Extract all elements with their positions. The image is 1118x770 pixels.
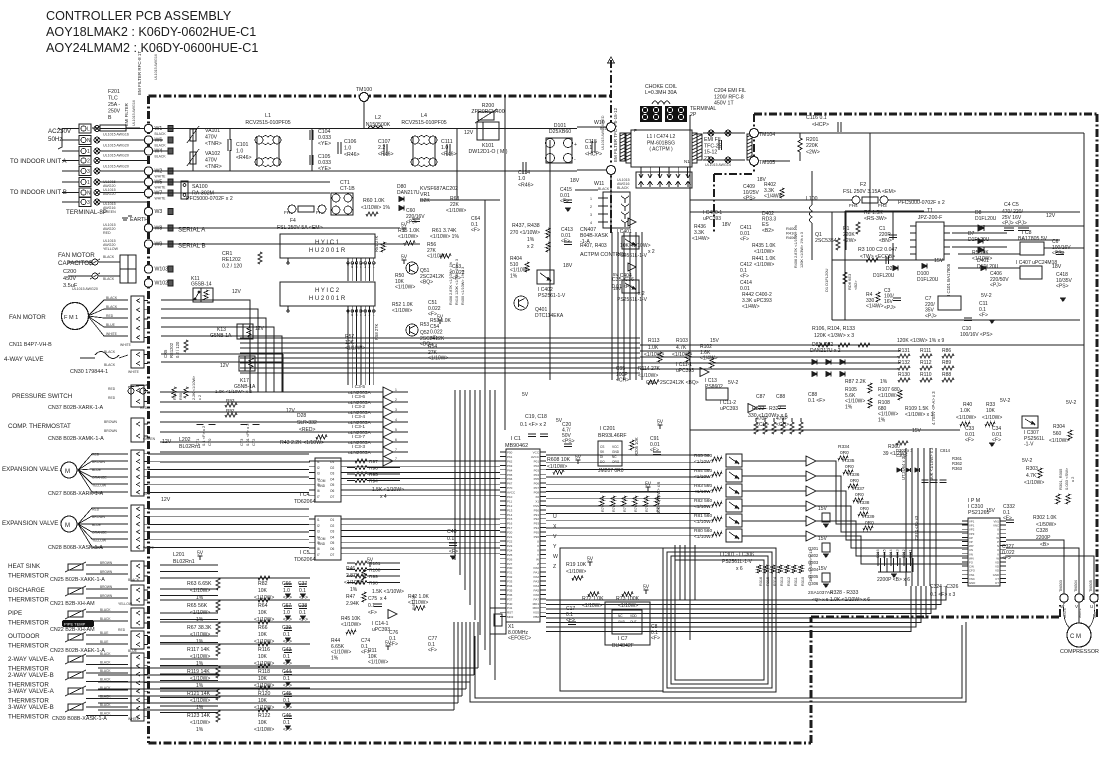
svg-text:BROWN: BROWN <box>100 561 113 565</box>
svg-text:WHITE: WHITE <box>120 343 132 347</box>
svg-text:R19 10K: R19 10K <box>566 562 587 568</box>
svg-text:<1/10W>: <1/10W> <box>694 504 714 510</box>
svg-text:<1/10W>: <1/10W> <box>956 415 976 421</box>
svg-text:5V-2: 5V-2 <box>981 293 992 299</box>
svg-text:R97: R97 <box>369 459 378 465</box>
svg-text:-1-V: -1-V <box>1024 442 1034 448</box>
svg-text:D2: D2 <box>886 266 893 272</box>
svg-text:P41: P41 <box>507 606 513 610</box>
svg-text:10K: 10K <box>258 676 268 682</box>
svg-text:Q301: Q301 <box>808 546 819 551</box>
svg-text:<PS>: <PS> <box>1052 251 1065 257</box>
svg-text:BLACK: BLACK <box>598 187 610 191</box>
svg-text:CT1: CT1 <box>340 180 350 186</box>
svg-text:P10: P10 <box>507 495 513 499</box>
svg-text:W102: W102 <box>155 281 169 287</box>
svg-text:4.7K: 4.7K <box>676 345 687 351</box>
svg-text:I6: I6 <box>317 489 320 493</box>
svg-text:P95: P95 <box>534 531 540 535</box>
svg-text:P67: P67 <box>507 482 513 486</box>
svg-text:FAN MOTOR: FAN MOTOR <box>58 252 95 259</box>
svg-text:W: W <box>553 554 558 560</box>
svg-text:<1/4W>: <1/4W> <box>742 304 760 310</box>
svg-text:I7: I7 <box>317 553 320 557</box>
svg-text:GND: GND <box>969 581 975 585</box>
svg-text:WHITE: WHITE <box>106 332 118 336</box>
svg-text:<YE>: <YE> <box>318 141 331 147</box>
svg-text:<1/10W>: <1/10W> <box>368 660 388 666</box>
svg-text:VCC: VCC <box>612 445 619 449</box>
svg-text:BLACK: BLACK <box>100 695 111 699</box>
svg-text:1.0: 1.0 <box>518 176 525 182</box>
svg-text:C814: C814 <box>940 448 951 453</box>
svg-text:BLACK: BLACK <box>106 305 118 309</box>
svg-text:O6: O6 <box>330 547 334 551</box>
svg-text:3-WAY VALVE-A: 3-WAY VALVE-A <box>8 688 55 695</box>
svg-text:1%: 1% <box>510 273 518 279</box>
svg-text:R130: R130 <box>898 372 910 378</box>
svg-text:uPC393: uPC393 <box>720 406 738 412</box>
svg-text:R205 10K: R205 10K <box>634 437 639 456</box>
svg-text:<CH>: <CH> <box>776 422 789 428</box>
svg-text:W9: W9 <box>155 242 163 248</box>
svg-text:BROWN: BROWN <box>100 594 113 598</box>
svg-text:3: 3 <box>395 408 397 412</box>
svg-text:<RS-3W>: <RS-3W> <box>864 216 887 222</box>
svg-text:<B>: <B> <box>1040 542 1049 548</box>
svg-text:1: 1 <box>590 197 592 201</box>
svg-text:JPZ-200-F: JPZ-200-F <box>918 215 943 221</box>
svg-text:x 4: x 4 <box>380 494 387 500</box>
svg-text:0R0: 0R0 <box>840 450 849 456</box>
svg-text:1200/ RFC-8: 1200/ RFC-8 <box>714 94 744 100</box>
svg-text:PA1: PA1 <box>534 571 540 575</box>
svg-text:4: 4 <box>590 221 592 225</box>
svg-text:TO INDOOR UNIT A: TO INDOOR UNIT A <box>10 158 67 165</box>
svg-text:RED: RED <box>108 387 116 391</box>
svg-text:R85 560: R85 560 <box>694 453 712 459</box>
svg-text:6: 6 <box>395 438 397 442</box>
svg-text:WHITE: WHITE <box>143 546 155 550</box>
svg-text:C39: C39 <box>282 625 291 631</box>
svg-text:C111: C111 <box>441 139 453 145</box>
svg-text:<F>: <F> <box>283 727 292 733</box>
svg-text:NC: NC <box>612 455 617 459</box>
svg-text:L2: L2 <box>375 115 381 121</box>
svg-text:CN11 B4P7-VH-B: CN11 B4P7-VH-B <box>9 342 52 348</box>
svg-text:O4: O4 <box>330 477 334 481</box>
svg-text:<PS>: <PS> <box>743 196 756 202</box>
svg-text:<BN>: <BN> <box>879 238 892 244</box>
svg-text:P33: P33 <box>507 580 513 584</box>
svg-text:P66: P66 <box>507 477 513 481</box>
svg-text:BLACK: BLACK <box>100 703 111 707</box>
svg-text:R82: R82 <box>258 581 268 587</box>
svg-text:P16: P16 <box>507 522 513 526</box>
svg-text:RED: RED <box>118 628 126 632</box>
svg-text:P63: P63 <box>507 464 513 468</box>
svg-text:R87 2.2K: R87 2.2K <box>845 379 867 385</box>
svg-text:DAN217U: DAN217U <box>397 190 420 196</box>
svg-text:PIPE TEMP: PIPE TEMP <box>64 622 86 627</box>
svg-text:<F>: <F> <box>1002 556 1011 562</box>
svg-text:BLACK: BLACK <box>100 617 111 621</box>
svg-text:C106: C106 <box>344 139 357 145</box>
svg-text:<1/10W>: <1/10W> <box>398 234 418 240</box>
svg-text:PA7: PA7 <box>534 597 540 601</box>
svg-text:BLUE: BLUE <box>92 523 102 527</box>
svg-text:R63 6.65K: R63 6.65K <box>187 581 212 587</box>
svg-text:VSS: VSS <box>533 504 539 508</box>
svg-text:1%: 1% <box>331 655 339 661</box>
svg-text:C66: C66 <box>282 581 291 587</box>
svg-text:BLACK: BLACK <box>100 669 111 673</box>
svg-text:I C1: I C1 <box>511 436 521 442</box>
svg-text:5V: 5V <box>385 641 392 647</box>
svg-text:BLACK: BLACK <box>106 296 118 300</box>
svg-text:2P: 2P <box>690 112 697 118</box>
svg-text:U: U <box>1090 604 1093 609</box>
svg-text:<1/10W>: <1/10W> <box>754 249 774 255</box>
svg-text:I1: I1 <box>317 460 320 464</box>
svg-text:R98: R98 <box>369 581 378 587</box>
svg-text:WHITE: WHITE <box>128 717 140 721</box>
svg-text:P01: P01 <box>534 459 540 463</box>
svg-text:R315: R315 <box>766 577 770 586</box>
svg-text:R66: R66 <box>258 625 268 631</box>
svg-text:PFC5000-0702F x 2: PFC5000-0702F x 2 <box>186 196 233 202</box>
svg-text:PA0: PA0 <box>534 566 540 570</box>
svg-text:5V: 5V <box>367 558 374 564</box>
svg-text:<1/10W>: <1/10W> <box>618 603 638 609</box>
svg-text:TERMINAL-8P: TERMINAL-8P <box>66 209 107 216</box>
svg-text:R47: R47 <box>346 594 355 600</box>
svg-text:<1/10W> 1%: <1/10W> 1% <box>430 234 459 240</box>
svg-text:R88: R88 <box>942 372 951 378</box>
svg-text:PRESSURE SWITCH: PRESSURE SWITCH <box>12 393 72 400</box>
svg-text:UL1015 AWG16: UL1015 AWG16 <box>154 54 158 80</box>
svg-text:3: 3 <box>87 200 90 206</box>
svg-text:EARTH: EARTH <box>130 217 148 223</box>
svg-text:<F>: <F> <box>740 237 749 243</box>
svg-text:<1/10W>: <1/10W> <box>341 622 361 628</box>
svg-text:2.87K: 2.87K <box>346 573 360 579</box>
svg-text:P50: P50 <box>507 451 513 455</box>
svg-text:4: 4 <box>395 418 397 422</box>
svg-text:5V-2: 5V-2 <box>728 380 739 386</box>
svg-text:18V: 18V <box>757 177 767 183</box>
svg-text:COMP. THERMOSTAT: COMP. THERMOSTAT <box>8 423 71 430</box>
svg-text:PFC5000-0702F x 2: PFC5000-0702F x 2 <box>898 200 945 206</box>
svg-text:THERMISTOR: THERMISTOR <box>8 643 49 650</box>
svg-text:GND: GND <box>618 620 626 624</box>
svg-text:I C7: I C7 <box>618 636 628 642</box>
svg-text:R94: R94 <box>369 479 378 485</box>
svg-text:x 2: x 2 <box>648 249 655 255</box>
svg-text:TM304: TM304 <box>1074 580 1078 592</box>
svg-text:2: 2 <box>87 159 90 165</box>
svg-text:P35: P35 <box>507 589 513 593</box>
svg-text:I C3-5: I C3-5 <box>352 384 365 390</box>
svg-text:CHOKE COIL: CHOKE COIL <box>645 84 677 90</box>
svg-text:C88: C88 <box>776 394 785 400</box>
svg-text:D1FL20U: D1FL20U <box>917 277 939 283</box>
svg-text:D1FL20U: D1FL20U <box>873 273 895 279</box>
svg-text:GND: GND <box>612 450 620 454</box>
svg-text:BLACK: BLACK <box>103 277 115 281</box>
svg-text:PA3: PA3 <box>534 580 540 584</box>
svg-text:R313: R313 <box>780 577 784 586</box>
svg-text:<F>: <F> <box>452 276 461 282</box>
svg-text:<F>: <F> <box>368 610 377 616</box>
svg-text:B2K: B2K <box>420 198 430 204</box>
svg-text:<1/10W>: <1/10W> <box>395 285 415 291</box>
svg-text:5V-2: 5V-2 <box>1000 398 1011 404</box>
svg-text:<B2>: <B2> <box>853 280 858 290</box>
svg-text:OUTDOOR: OUTDOOR <box>8 633 40 640</box>
svg-text:0.1 <F> x 2: 0.1 <F> x 2 <box>201 425 206 446</box>
svg-text:P22: P22 <box>507 540 513 544</box>
svg-text:<F>: <F> <box>979 313 988 319</box>
svg-text:R89: R89 <box>942 360 951 366</box>
svg-text:<1/10W>: <1/10W> <box>344 580 364 586</box>
svg-text:I7: I7 <box>317 495 320 499</box>
svg-text:5V-2: 5V-2 <box>1066 400 1077 406</box>
svg-text:<F>: <F> <box>740 274 749 280</box>
svg-text:4.70SV <P-A> x 3: 4.70SV <P-A> x 3 <box>931 391 936 425</box>
svg-text:COM: COM <box>318 537 326 541</box>
svg-text:UL1015 AWG20: UL1015 AWG20 <box>103 144 129 148</box>
svg-text:SERIAL B: SERIAL B <box>178 243 206 250</box>
svg-text:5: 5 <box>395 428 397 432</box>
svg-text:SERIAL A: SERIAL A <box>178 227 206 234</box>
svg-text:0.1: 0.1 <box>299 610 306 616</box>
svg-text:BLACK: BLACK <box>104 350 116 354</box>
svg-text:CN38 B02B-XAMK-1-A: CN38 B02B-XAMK-1-A <box>48 436 104 442</box>
svg-text:TERMINAL: TERMINAL <box>690 106 716 112</box>
svg-text:2: 2 <box>395 398 397 402</box>
svg-text:7: 7 <box>395 448 397 452</box>
svg-text:P32: P32 <box>507 575 513 579</box>
svg-text:10K: 10K <box>258 720 268 726</box>
svg-text:D25XB60: D25XB60 <box>549 129 571 135</box>
svg-text:R303: R303 <box>1026 466 1038 472</box>
svg-text:H Y I C 1: H Y I C 1 <box>315 240 340 246</box>
svg-text:0.1: 0.1 <box>283 720 290 726</box>
svg-text:AVCC: AVCC <box>507 491 516 495</box>
svg-text:THERMISTOR: THERMISTOR <box>8 714 49 721</box>
svg-text:X0: X0 <box>535 495 539 499</box>
svg-text:12V: 12V <box>464 130 474 136</box>
svg-text:<PJ>: <PJ> <box>406 220 418 226</box>
svg-text:4.7K: 4.7K <box>1026 473 1037 479</box>
svg-text:I C3-6: I C3-6 <box>352 394 365 400</box>
svg-text:OUT: OUT <box>630 620 637 624</box>
svg-text:P37: P37 <box>507 597 513 601</box>
svg-text:0.033 <SW>: 0.033 <SW> <box>1064 467 1069 490</box>
svg-text:N: N <box>87 191 91 197</box>
svg-text:1.0: 1.0 <box>441 145 448 151</box>
svg-text:<Q> x 6: <Q> x 6 <box>812 597 829 602</box>
svg-text:Q303: Q303 <box>808 560 819 565</box>
svg-text:P06: P06 <box>534 482 540 486</box>
svg-text:BLACK: BLACK <box>100 652 111 656</box>
svg-text:R312: R312 <box>787 577 791 586</box>
svg-text:P31: P31 <box>507 571 513 575</box>
svg-text:P34: P34 <box>507 584 513 588</box>
svg-text:0R0: 0R0 <box>845 464 854 470</box>
svg-text:YELLOW: YELLOW <box>103 247 119 251</box>
svg-text:BU4842F: BU4842F <box>612 643 634 649</box>
svg-text:WHITE: WHITE <box>155 186 167 190</box>
svg-text:DISCHARGE: DISCHARGE <box>8 587 45 594</box>
svg-text:TO INDOOR UNIT B: TO INDOOR UNIT B <box>10 189 67 196</box>
svg-text:+: + <box>574 142 577 148</box>
svg-text:EMI FILTER: EMI FILTER <box>124 103 129 126</box>
svg-text:CN22 B2B-XH-AM: CN22 B2B-XH-AM <box>50 627 95 633</box>
svg-text:ORANGE: ORANGE <box>92 531 107 535</box>
svg-text:THERMISTOR: THERMISTOR <box>8 620 49 627</box>
svg-text:560: 560 <box>1053 431 1062 437</box>
svg-text:1.0: 1.0 <box>236 149 243 155</box>
svg-text:C M: C M <box>1070 634 1081 640</box>
svg-text:BROWN: BROWN <box>104 420 118 424</box>
svg-text:GND: GND <box>318 484 326 488</box>
svg-text:O7: O7 <box>330 553 334 557</box>
svg-text:PS2561-1-V: PS2561-1-V <box>538 293 566 299</box>
svg-text:220K: 220K <box>806 143 819 149</box>
svg-text:<1/10W>: <1/10W> <box>982 415 1002 421</box>
svg-text:AWG20: AWG20 <box>103 192 115 196</box>
svg-text:R336: R336 <box>848 472 860 478</box>
svg-text:UL1015 AWG20: UL1015 AWG20 <box>72 287 98 291</box>
svg-text:M: M <box>65 469 70 475</box>
svg-text:P62: P62 <box>507 459 513 463</box>
svg-text:10K: 10K <box>258 610 268 616</box>
svg-text:120K <1/3W> x 3: 120K <1/3W> x 3 <box>814 333 854 339</box>
svg-text:GREEN: GREEN <box>143 437 156 441</box>
svg-text:25A -: 25A - <box>108 102 120 108</box>
svg-text:5V-2: 5V-2 <box>1022 458 1033 464</box>
svg-text:<R46>: <R46> <box>378 151 394 157</box>
svg-text:D28: D28 <box>297 413 306 419</box>
svg-text:DTC114EKA: DTC114EKA <box>535 313 564 319</box>
svg-text:15V: 15V <box>710 338 720 344</box>
svg-text:BLACK: BLACK <box>100 678 111 682</box>
svg-text:Y: Y <box>537 553 539 557</box>
svg-text:AOY18LMAK2 : K06DY-0602HUE-C1: AOY18LMAK2 : K06DY-0602HUE-C1 <box>46 25 256 39</box>
svg-text:EXPANSION VALVE A: EXPANSION VALVE A <box>2 466 65 473</box>
svg-text:I C3-2: I C3-2 <box>352 404 365 410</box>
svg-text:5V: 5V <box>401 255 408 261</box>
svg-text:W8: W8 <box>155 226 163 232</box>
svg-text:O3: O3 <box>330 530 334 534</box>
svg-text:5V: 5V <box>401 223 408 229</box>
svg-text:U: U <box>553 514 557 520</box>
svg-text:V: V <box>537 548 539 552</box>
svg-text:L1: L1 <box>265 113 271 119</box>
svg-text:470V: 470V <box>205 158 218 164</box>
svg-text:C115: C115 <box>585 139 597 145</box>
svg-text:12V: 12V <box>1046 213 1056 219</box>
svg-text:12V: 12V <box>220 363 230 369</box>
svg-text:P30: P30 <box>507 566 513 570</box>
svg-text:P17: P17 <box>507 526 513 530</box>
svg-text:R117 14K: R117 14K <box>187 647 210 653</box>
svg-text:<1/10W>: <1/10W> <box>254 727 274 733</box>
svg-text:P27: P27 <box>507 562 513 566</box>
svg-text:Q91: Q91 <box>646 380 656 386</box>
svg-text:<EFOEC>: <EFOEC> <box>508 636 531 642</box>
svg-text:PS2561L-1-V: PS2561L-1-V <box>722 559 753 565</box>
svg-text:5V: 5V <box>522 392 529 398</box>
svg-text:COM: COM <box>318 479 326 483</box>
svg-text:BLUE: BLUE <box>100 640 108 644</box>
svg-text:R72 1.0K: R72 1.0K <box>582 596 604 602</box>
svg-text:O2: O2 <box>330 524 334 528</box>
svg-text:450V 1T: 450V 1T <box>714 101 734 107</box>
svg-text:R81 560: R81 560 <box>694 513 712 519</box>
svg-text:R49 10K: R49 10K <box>411 594 416 610</box>
svg-text:N: N <box>87 138 91 144</box>
svg-text:0.2 / 120: 0.2 / 120 <box>222 263 242 269</box>
svg-text:RED: RED <box>103 231 111 235</box>
svg-text:R322 - R327: R322 - R327 <box>752 406 782 412</box>
svg-text:P25: P25 <box>507 553 513 557</box>
svg-text:12V: 12V <box>161 497 171 503</box>
svg-text:0.1 <F>: 0.1 <F> <box>808 398 825 404</box>
svg-text:T1: T1 <box>927 208 933 214</box>
svg-text:4-WAY VALVE: 4-WAY VALVE <box>4 356 44 363</box>
svg-text:<F>: <F> <box>428 312 437 318</box>
svg-text:1%: 1% <box>350 587 358 593</box>
svg-text:EM FILTER TFC-2-5-15-12: EM FILTER TFC-2-5-15-12 <box>613 107 618 162</box>
svg-text:O6: O6 <box>330 489 334 493</box>
svg-text:MD2: MD2 <box>507 615 514 619</box>
svg-text:RE1202: RE1202 <box>169 342 174 358</box>
svg-text:<1/10W>: <1/10W> <box>582 603 602 609</box>
svg-text:VA102: VA102 <box>205 151 220 157</box>
svg-text:COMPRESSOR: COMPRESSOR <box>1060 649 1099 655</box>
svg-text:BLACK: BLACK <box>155 144 167 148</box>
svg-text:C75: C75 <box>368 596 377 602</box>
svg-text:10K: 10K <box>258 588 268 594</box>
svg-text:P93: P93 <box>534 522 540 526</box>
svg-text:<HCP>: <HCP> <box>812 122 829 128</box>
svg-text:<1/10W>: <1/10W> <box>694 519 714 525</box>
svg-text:HEAT SINK: HEAT SINK <box>8 563 41 570</box>
svg-text:<R46>: <R46> <box>344 152 360 158</box>
svg-text:H U 2 0 0 1 R: H U 2 0 0 1 R <box>309 296 346 302</box>
svg-text:x 4: x 4 <box>380 596 387 602</box>
svg-text:P03: P03 <box>534 468 540 472</box>
svg-text:<PJ>: <PJ> <box>990 283 1002 289</box>
svg-text:O4: O4 <box>330 535 334 539</box>
svg-text:R437, R438: R437, R438 <box>512 223 540 229</box>
svg-text:R113: R113 <box>648 338 660 344</box>
svg-text:EMI FIL: EMI FIL <box>704 137 722 143</box>
svg-text:15V: 15V <box>986 508 996 514</box>
svg-text:MD0: MD0 <box>533 606 540 610</box>
svg-text:R310: R310 <box>801 577 805 586</box>
svg-text:18V: 18V <box>722 222 732 228</box>
svg-text:R106, R104, R133: R106, R104, R133 <box>812 326 855 332</box>
svg-text:BLUE: BLUE <box>106 323 116 327</box>
svg-text:<1/10W>: <1/10W> <box>566 569 586 575</box>
svg-text:I3: I3 <box>317 530 320 534</box>
svg-text:C35, C36: C35, C36 <box>612 277 634 283</box>
svg-text:RED: RED <box>108 396 116 400</box>
